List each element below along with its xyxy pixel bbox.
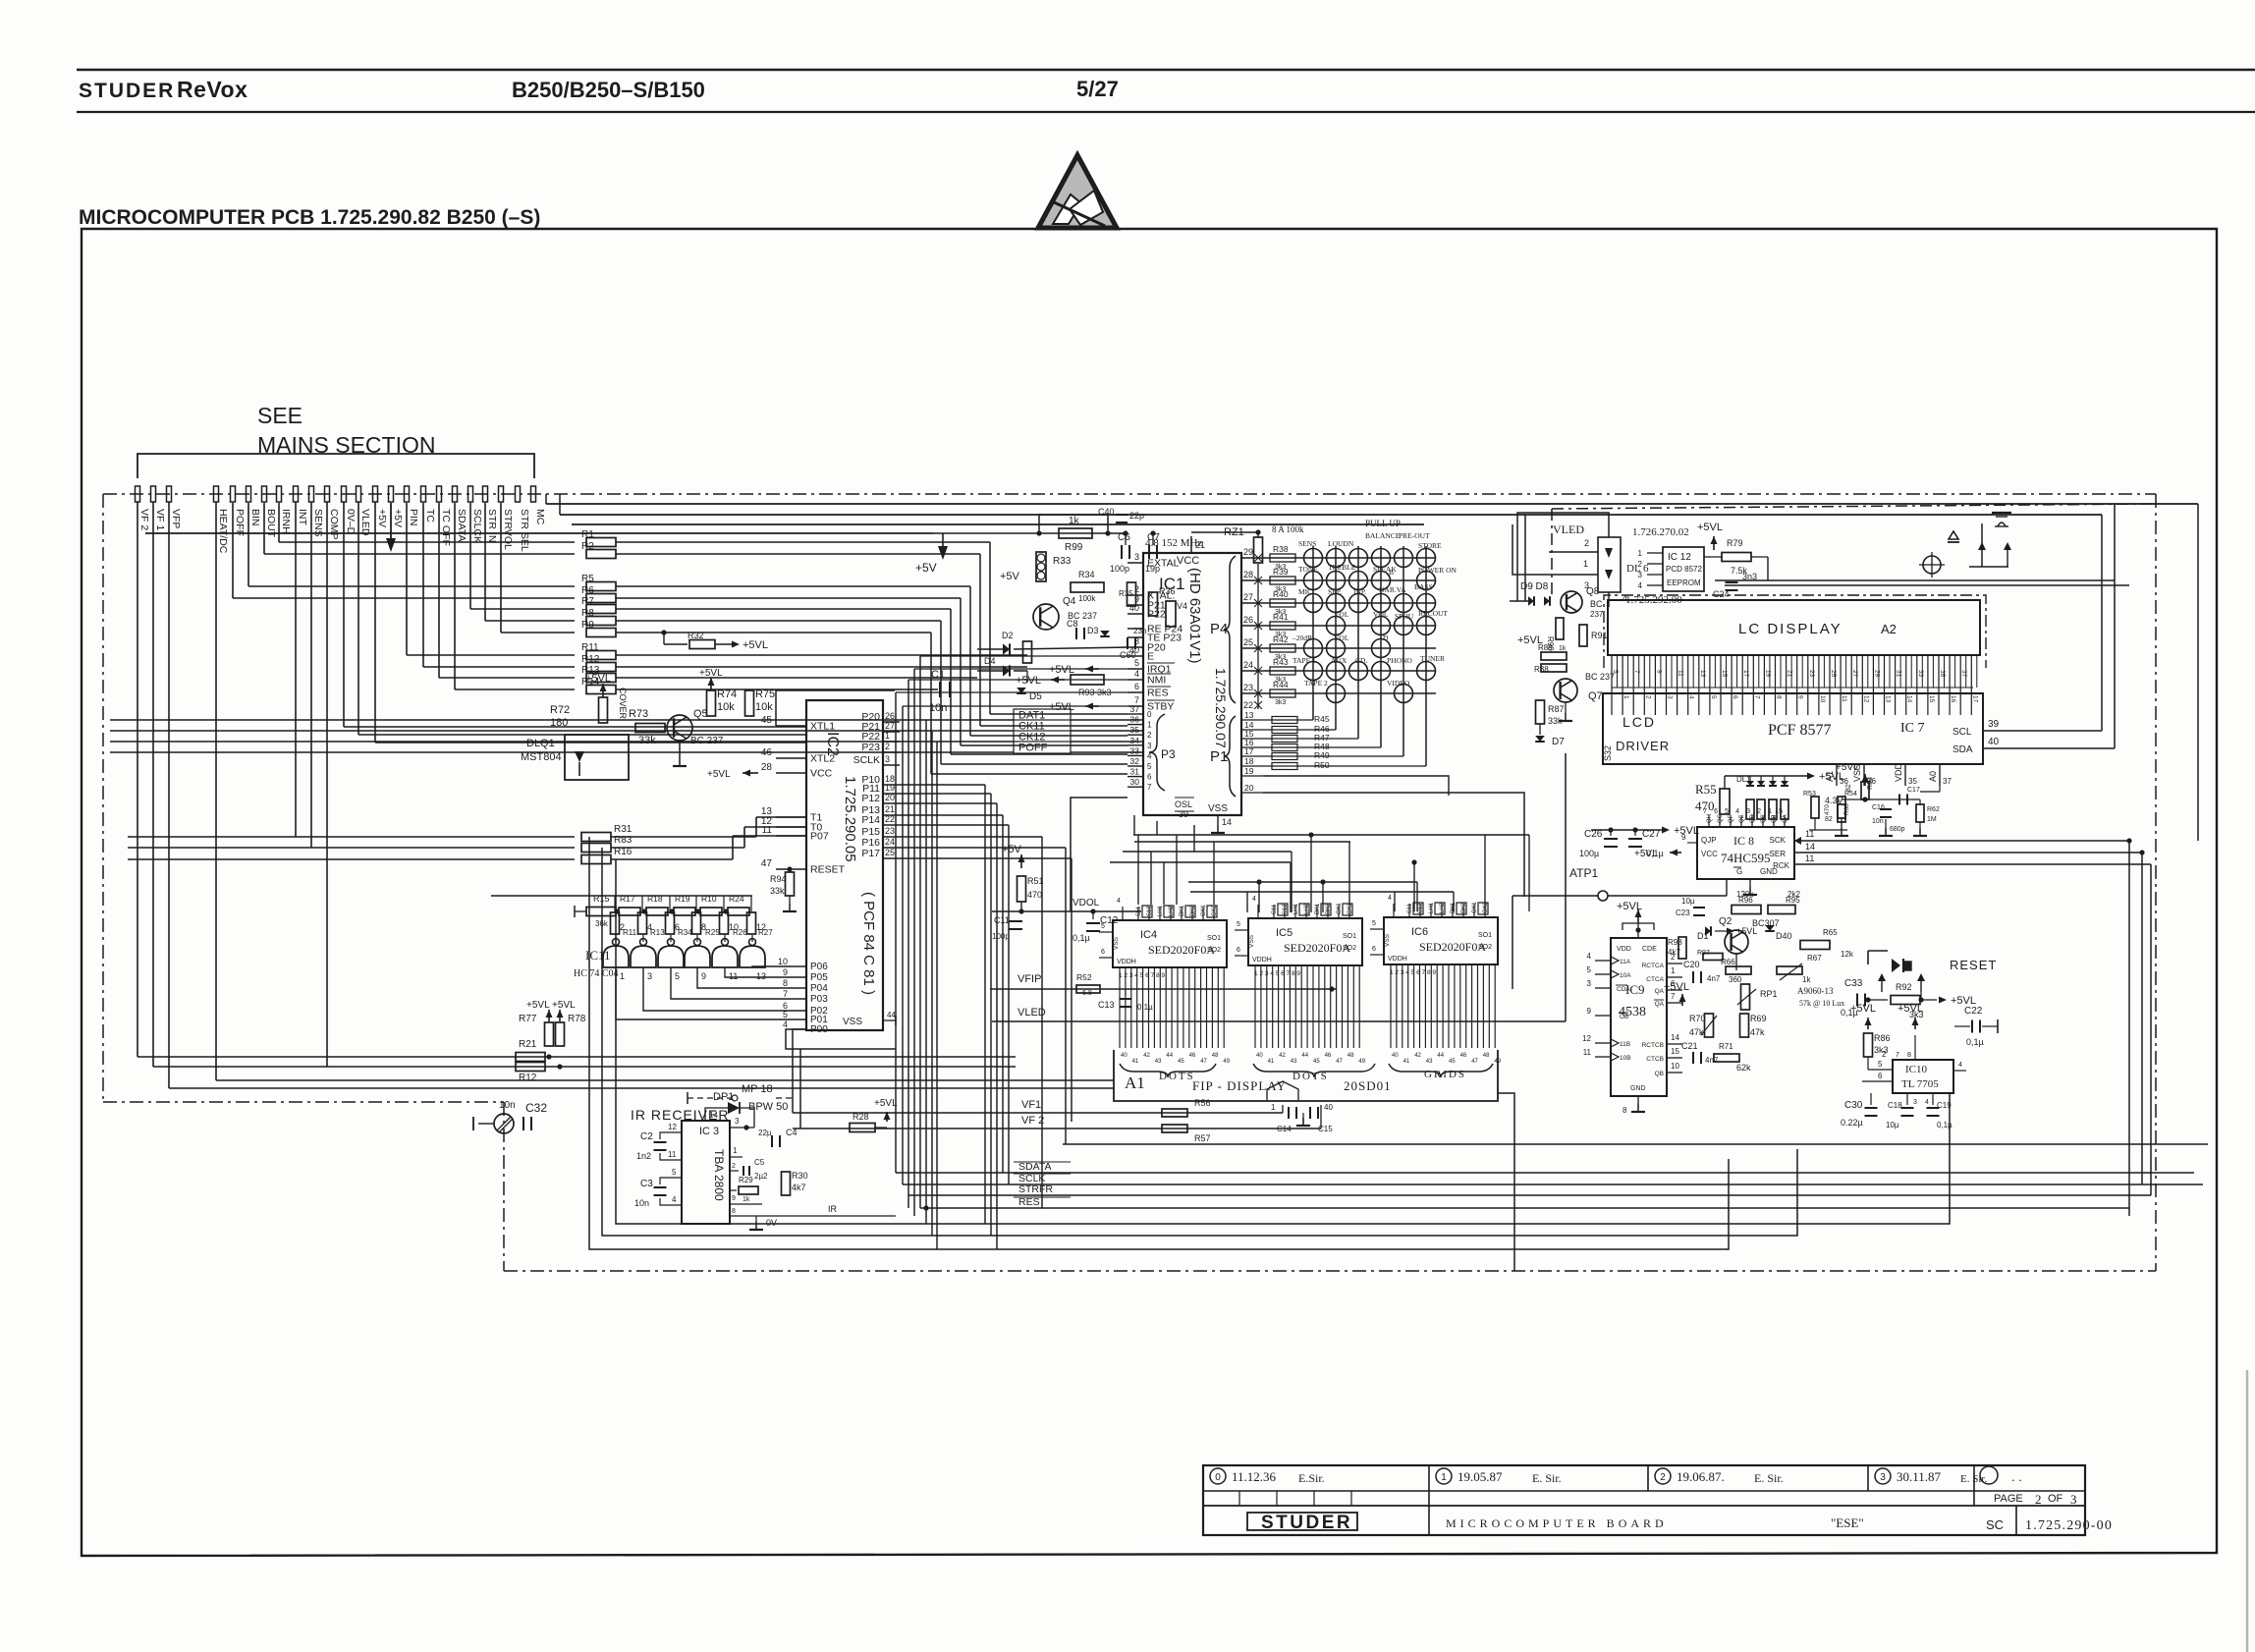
svg-text:TONE: TONE (1298, 565, 1318, 574)
svg-text:19: 19 (1764, 670, 1771, 678)
svg-text:SED2020F0A: SED2020F0A (1148, 943, 1215, 957)
dash-dot boundary left2 (503, 1102, 505, 1271)
svg-text:R75: R75 (755, 688, 775, 700)
dual monostable IC9 4538 (1582, 901, 1682, 1115)
svg-text:0,1µ: 0,1µ (1841, 1008, 1858, 1018)
input series resistors R1-R14 rows (233, 503, 1027, 694)
svg-text:2: 2 (1660, 1472, 1666, 1483)
svg-text:470: 470 (1824, 804, 1831, 815)
svg-text:24: 24 (885, 837, 895, 847)
svg-text:C21: C21 (1681, 1041, 1698, 1051)
svg-text:C60: C60 (1120, 650, 1136, 660)
svg-text:20: 20 (885, 793, 895, 802)
svg-text:GRIDS: GRIDS (1424, 1069, 1466, 1080)
svg-text:R12: R12 (519, 1073, 537, 1083)
svg-text:17: 17 (1244, 746, 1254, 756)
svg-text:RECOUT: RECOUT (1418, 609, 1448, 618)
svg-text:BK1: BK1 (1180, 905, 1185, 916)
svg-text:3: 3 (1913, 1099, 1917, 1106)
svg-text:40: 40 (1324, 1103, 1333, 1112)
svg-text:P00: P00 (810, 1024, 828, 1035)
svg-text:19: 19 (1244, 766, 1254, 776)
svg-text:CTCB: CTCB (1646, 1056, 1664, 1063)
svg-text:R94: R94 (770, 874, 787, 884)
svg-text:4: 4 (1117, 898, 1121, 905)
svg-text:R6: R6 (581, 585, 594, 596)
test point ATP1 (1512, 866, 1608, 901)
svg-text:40: 40 (1392, 1053, 1399, 1059)
svg-text:1: 1 (1638, 549, 1643, 558)
svg-text:E. Sir.: E. Sir. (1532, 1471, 1562, 1485)
IR receiver IC3 TBA2800 (631, 1083, 898, 1230)
svg-text:XTL1: XTL1 (810, 721, 835, 733)
svg-text:+5VL: +5VL (1836, 762, 1859, 773)
svg-text:Q8: Q8 (1586, 586, 1600, 597)
svg-text:470: 470 (1695, 798, 1715, 813)
svg-text:IC 12: IC 12 (1668, 552, 1691, 563)
svg-text:49: 49 (1358, 1059, 1365, 1065)
svg-text:Q5: Q5 (693, 708, 708, 720)
svg-text:120k: 120k (1736, 890, 1754, 899)
svg-text:6: 6 (1714, 808, 1718, 815)
svg-text:+5V: +5V (915, 561, 937, 575)
svg-text:PAGE: PAGE (1994, 1493, 2023, 1505)
svg-text:A0: A0 (1928, 771, 1938, 782)
reset connector symbol (1868, 951, 1997, 1003)
svg-text:STRVOL: STRVOL (502, 509, 514, 550)
svg-text:VF1: VF1 (1021, 1099, 1041, 1111)
svg-text:R31: R31 (614, 824, 632, 835)
dash-dot boundary jog (103, 1101, 504, 1103)
svg-text:BALANCE: BALANCE (1365, 531, 1401, 540)
P1 rows R45-R50 (1263, 714, 1524, 897)
FIP display A1 (1114, 1050, 1498, 1101)
svg-text:5/27: 5/27 (1076, 77, 1119, 101)
svg-text:SENS: SENS (1298, 539, 1316, 548)
svg-text:13: 13 (1244, 710, 1254, 720)
svg-text:14: 14 (1906, 695, 1913, 703)
svg-text:2k2: 2k2 (1787, 890, 1800, 899)
svg-text:7: 7 (1633, 670, 1640, 674)
svg-text:R24: R24 (729, 894, 744, 904)
svg-text:GND: GND (1760, 867, 1778, 876)
svg-text:8: 8 (1907, 1052, 1911, 1059)
svg-text:6: 6 (1878, 1072, 1883, 1080)
svg-text:45: 45 (761, 715, 773, 726)
svg-text:R45: R45 (1314, 714, 1330, 724)
svg-text:10n: 10n (634, 1198, 649, 1208)
svg-text:+5VL: +5VL (1617, 901, 1642, 912)
svg-text:8: 8 (732, 1208, 736, 1215)
svg-text:36: 36 (1130, 715, 1140, 725)
svg-text:41: 41 (1132, 1059, 1139, 1065)
VFIP row R52 C13 (990, 972, 1336, 1012)
svg-text:SCL: SCL (1952, 727, 1972, 738)
svg-text:3: 3 (1147, 742, 1152, 750)
svg-text:R55: R55 (1695, 782, 1717, 797)
svg-text:10A: 10A (1620, 972, 1631, 979)
svg-text:0,1µ: 0,1µ (1646, 849, 1664, 858)
svg-text:RESET: RESET (810, 864, 846, 876)
svg-text:A1: A1 (1125, 1074, 1145, 1092)
svg-text:46: 46 (761, 747, 773, 758)
VF1 VF2 rows (793, 1030, 1333, 1143)
svg-text:44: 44 (1437, 1053, 1444, 1059)
svg-text:MC: MC (534, 509, 546, 525)
svg-text:23n: 23n (1133, 627, 1146, 635)
svg-text:+5VL: +5VL (1049, 664, 1074, 676)
svg-text:C1: C1 (931, 669, 945, 681)
ESD warning triangle (1038, 155, 1117, 228)
VDOL supply R51 (992, 844, 1141, 943)
svg-text:Q2: Q2 (1719, 916, 1732, 927)
svg-text:D5: D5 (1029, 691, 1042, 702)
front panel key matrix (1241, 531, 1457, 766)
svg-text:R35: R35 (1119, 589, 1133, 598)
svg-text:CD.: CD. (1355, 656, 1367, 665)
svg-text:+5VL: +5VL (585, 673, 611, 685)
svg-text:HC 74 C04: HC 74 C04 (574, 968, 619, 979)
svg-text:C18: C18 (1888, 1101, 1902, 1110)
svg-text:4n7: 4n7 (1705, 1056, 1719, 1065)
svg-text:P22: P22 (1147, 609, 1166, 621)
svg-text:4: 4 (672, 1195, 677, 1204)
svg-text:33k: 33k (770, 886, 785, 896)
svg-text:41: 41 (1268, 1059, 1275, 1065)
svg-text:C13: C13 (1098, 1000, 1115, 1010)
svg-text:R49: R49 (1314, 750, 1330, 760)
display data staircase (1071, 798, 1529, 912)
svg-text:STUDER: STUDER (79, 80, 175, 102)
svg-text:40: 40 (1256, 1053, 1263, 1059)
svg-text:15: 15 (1928, 695, 1935, 703)
svg-text:IC 3: IC 3 (699, 1126, 719, 1137)
svg-text:R17: R17 (620, 894, 635, 904)
svg-text:R38: R38 (1273, 544, 1289, 554)
svg-text:TBA 2800: TBA 2800 (712, 1149, 726, 1201)
svg-text:R13: R13 (650, 928, 665, 937)
svg-text:11: 11 (1805, 854, 1814, 863)
svg-text:46: 46 (1189, 1053, 1196, 1059)
STUDER REVOX logo (79, 77, 247, 102)
svg-text:3k3: 3k3 (1909, 1010, 1924, 1019)
svg-text:22p: 22p (1129, 511, 1144, 521)
svg-text:"ESE": "ESE" (1831, 1515, 1864, 1530)
svg-text:R77: R77 (519, 1014, 537, 1024)
svg-text:37: 37 (1943, 777, 1952, 786)
svg-text:TAPE 1: TAPE 1 (1292, 656, 1316, 665)
svg-text:R42: R42 (1273, 634, 1289, 644)
svg-text:CDA: CDA (1617, 986, 1630, 993)
svg-text:22: 22 (885, 814, 895, 824)
top horizontal bus wires (145, 494, 2198, 841)
svg-text:–20dB: –20dB (1292, 633, 1312, 642)
svg-text:D3: D3 (1087, 626, 1099, 635)
svg-text:C16: C16 (1872, 804, 1885, 811)
svg-text:1.726.270.02: 1.726.270.02 (1632, 526, 1689, 538)
svg-text:R54: R54 (1844, 791, 1857, 798)
svg-text:6: 6 (1134, 682, 1139, 691)
svg-text:49: 49 (1223, 1059, 1230, 1065)
svg-text:62k: 62k (1736, 1063, 1751, 1073)
svg-text:R50: R50 (1314, 760, 1330, 770)
svg-text:360: 360 (1729, 975, 1742, 984)
svg-text:LH1: LH1 (1293, 903, 1299, 914)
svg-text:DLQ1: DLQ1 (526, 738, 555, 749)
svg-text:237: 237 (1590, 610, 1604, 619)
svg-text:B: B (1389, 568, 1394, 577)
svg-text:2: 2 (1147, 731, 1152, 740)
svg-text:BK1: BK1 (1315, 903, 1321, 914)
svg-text:12: 12 (668, 1123, 677, 1131)
svg-text:47k: 47k (1689, 1027, 1704, 1037)
svg-text:B250/B250–S/B150: B250/B250–S/B150 (512, 78, 705, 102)
svg-text:COVER: COVER (618, 688, 628, 720)
svg-text:40: 40 (1121, 1053, 1127, 1059)
svg-text:20: 20 (1244, 783, 1254, 793)
svg-text:46: 46 (1460, 1053, 1467, 1059)
svg-text:0,1µ: 0,1µ (1072, 933, 1090, 943)
svg-text:2: 2 (1638, 560, 1643, 569)
svg-text:R63: R63 (1867, 777, 1874, 790)
svg-text:VLED: VLED (1553, 523, 1584, 536)
svg-text:C4: C4 (786, 1128, 797, 1137)
svg-text:0,1µ: 0,1µ (1966, 1037, 1984, 1047)
svg-text:C15: C15 (1318, 1125, 1333, 1133)
svg-text:R57: R57 (1194, 1133, 1211, 1143)
svg-text:25: 25 (885, 848, 895, 857)
svg-text:1: 1 (1271, 1103, 1276, 1112)
svg-text:R32: R32 (687, 631, 704, 640)
svg-text:A9060-13: A9060-13 (1797, 986, 1834, 996)
svg-text:POFF: POFF (234, 509, 246, 536)
svg-text:10n: 10n (499, 1100, 516, 1111)
svg-text:44: 44 (887, 1011, 896, 1019)
IC1 P4 pins (1210, 556, 1236, 703)
svg-text:D: D (1383, 633, 1389, 642)
svg-text:OF: OF (2048, 1493, 2063, 1505)
svg-text:8: 8 (783, 978, 788, 988)
header page number (1076, 77, 1119, 101)
hex inverter IC11 (491, 894, 792, 1019)
svg-text:34: 34 (1130, 736, 1140, 745)
svg-text:R53: R53 (1803, 791, 1816, 798)
svg-text:RP1: RP1 (1760, 989, 1778, 999)
svg-text:IC10: IC10 (1905, 1064, 1928, 1075)
svg-text:9: 9 (1655, 670, 1662, 674)
svg-text:VOL: VOL (1334, 610, 1349, 619)
svg-text:6: 6 (1732, 695, 1738, 699)
svg-text:R5: R5 (581, 574, 594, 584)
svg-text:R89: R89 (1538, 643, 1553, 652)
svg-text:V4: V4 (1177, 601, 1187, 611)
svg-text:48: 48 (1483, 1053, 1490, 1059)
svg-text:+5VL: +5VL (699, 668, 723, 679)
svg-text:10: 10 (1819, 695, 1826, 703)
svg-text:3: 3 (2070, 1492, 2077, 1507)
RZ1 pull-up pack (1191, 519, 1401, 563)
LC display A2 and LCD driver IC7 (1552, 504, 2151, 786)
svg-text:48: 48 (1347, 1053, 1354, 1059)
svg-text:D2: D2 (1002, 631, 1014, 640)
reset diodes D2 D4 D5 (929, 631, 1127, 714)
staircase wires into IC2 top (344, 727, 806, 743)
SDATA SCLK STRFR RES bus (896, 1161, 2203, 1211)
svg-text:C8: C8 (1067, 619, 1078, 629)
svg-text:QF: QF (1729, 814, 1734, 823)
svg-text:10k: 10k (717, 701, 735, 713)
svg-text:11: 11 (729, 971, 738, 981)
svg-text:29: 29 (1243, 547, 1253, 557)
svg-text:R73: R73 (629, 708, 648, 720)
svg-text:SO2: SO2 (1343, 945, 1356, 952)
svg-text:R70: R70 (1689, 1014, 1706, 1023)
svg-text:9: 9 (1587, 1007, 1592, 1016)
svg-text:+5V: +5V (1000, 571, 1020, 582)
misc pin verticals (296, 502, 375, 1067)
svg-text:32: 32 (1130, 756, 1140, 766)
svg-text:VOL: VOL (1373, 610, 1389, 619)
svg-text:14: 14 (1805, 842, 1815, 852)
right joins (2155, 731, 2194, 1173)
svg-text:7: 7 (1896, 1052, 1899, 1059)
svg-text:C33: C33 (1844, 978, 1863, 989)
svg-text:3: 3 (735, 1117, 740, 1126)
svg-text:VSS: VSS (843, 1017, 862, 1027)
monostable timing parts (1664, 937, 1767, 1073)
svg-text:5: 5 (1612, 670, 1619, 674)
svg-text:C14: C14 (1277, 1125, 1292, 1133)
svg-text:1 2 3 4 5 6 7 8 9: 1 2 3 4 5 6 7 8 9 (1119, 972, 1165, 979)
svg-text:R25: R25 (705, 928, 720, 937)
svg-text:SEP.: SEP. (1328, 587, 1342, 596)
svg-text:P07: P07 (810, 831, 829, 843)
dash-dot boundary top (103, 493, 2156, 495)
svg-text:R87: R87 (1548, 704, 1565, 714)
svg-text:VDD: VDD (1617, 946, 1631, 953)
C32 input filter (473, 1100, 547, 1133)
header top rule (77, 69, 2255, 72)
display driver IC4 SED2020 (1099, 898, 1231, 1065)
svg-text:20SD01: 20SD01 (1344, 1078, 1392, 1093)
svg-text:R92: R92 (1896, 982, 1912, 992)
svg-text:22µ: 22µ (758, 1129, 772, 1137)
svg-text:+5VL +5VL: +5VL +5VL (526, 1000, 576, 1011)
svg-text:15: 15 (1721, 670, 1728, 678)
svg-text:RCTCB: RCTCB (1642, 1042, 1664, 1049)
XTL loop wire (776, 690, 895, 726)
svg-text:IC 7: IC 7 (1900, 721, 1925, 736)
svg-text:1M: 1M (1927, 816, 1937, 823)
svg-text:2: 2 (732, 1163, 736, 1170)
svg-text:4: 4 (1688, 695, 1695, 699)
svg-text:IR: IR (828, 1204, 838, 1214)
svg-text:MICROCOMPUTER PCB 1.725.290.: MICROCOMPUTER PCB 1.725.290.82 B250 (–S) (79, 206, 540, 229)
svg-text:VOL: VOL (1334, 633, 1349, 642)
svg-text:29: 29 (1873, 670, 1880, 678)
svg-text:ReVox: ReVox (177, 77, 247, 102)
svg-text:10µ: 10µ (1681, 897, 1695, 906)
svg-text:5: 5 (1372, 920, 1376, 927)
svg-text:+5V: +5V (392, 509, 404, 527)
HEAT/DC vertical (215, 502, 217, 1080)
svg-text:41: 41 (1403, 1059, 1410, 1065)
svg-text:25: 25 (1830, 670, 1837, 678)
svg-text:7: 7 (1147, 783, 1152, 792)
svg-text:SO1: SO1 (1207, 935, 1221, 942)
svg-text:VSS: VSS (1384, 933, 1391, 947)
svg-text:1k: 1k (1802, 975, 1811, 984)
svg-text:5: 5 (1237, 921, 1240, 928)
svg-text:P06: P06 (810, 962, 828, 972)
svg-text:R18: R18 (647, 894, 663, 904)
svg-text:C24: C24 (1713, 589, 1730, 599)
svg-text:R60: R60 (1843, 803, 1850, 815)
svg-text:ATP1: ATP1 (1569, 866, 1598, 880)
svg-text:35: 35 (1939, 670, 1946, 678)
svg-text:TC OFF: TC OFF (440, 509, 452, 546)
mains bracket (137, 454, 534, 478)
svg-text:SDATA: SDATA (1018, 1161, 1051, 1173)
svg-text:33: 33 (1917, 670, 1924, 678)
svg-text:42: 42 (1414, 1053, 1421, 1059)
svg-text:STR IN: STR IN (486, 509, 498, 542)
svg-text:19.05.87: 19.05.87 (1457, 1469, 1503, 1484)
svg-text:11: 11 (668, 1150, 677, 1159)
svg-text:CDE: CDE (1642, 946, 1657, 953)
svg-text:D7: D7 (1552, 737, 1565, 747)
svg-text:SO2: SO2 (1207, 947, 1221, 954)
svg-text:R51: R51 (1027, 876, 1044, 886)
pullups R77 R78 R21 R12 (516, 1000, 586, 1083)
svg-text:COMP: COMP (328, 509, 340, 540)
svg-text:40: 40 (1988, 737, 2000, 747)
svg-text:+5VL: +5VL (1736, 926, 1757, 936)
dash-dot boundary right (2155, 494, 2157, 1271)
svg-text:RES: RES (1018, 1196, 1040, 1208)
svg-text:0V–D: 0V–D (345, 509, 357, 535)
svg-text:4k7: 4k7 (1668, 948, 1680, 957)
svg-text:R74: R74 (717, 688, 737, 700)
svg-text:C23: C23 (1676, 909, 1690, 917)
svg-text:4: 4 (1925, 1099, 1929, 1106)
svg-text:45: 45 (1178, 1059, 1184, 1065)
svg-text:4: 4 (1587, 952, 1592, 961)
svg-text:+5VL: +5VL (1674, 825, 1699, 837)
svg-text:R36: R36 (1159, 586, 1176, 596)
svg-text:10n: 10n (1872, 818, 1884, 825)
svg-text:NAR.VA: NAR.VA (1379, 585, 1406, 594)
svg-text:1: 1 (1583, 559, 1588, 569)
svg-text:R56: R56 (1194, 1098, 1211, 1108)
svg-text:Q7: Q7 (1588, 690, 1603, 702)
svg-text:3k3: 3k3 (1275, 699, 1286, 706)
oscillator Q4 cluster (915, 507, 1187, 660)
svg-text:R83: R83 (614, 835, 632, 846)
svg-text:( PCF 84 C 81 ): ( PCF 84 C 81 ) (860, 892, 877, 995)
svg-text:R91: R91 (1591, 631, 1608, 640)
IC2 port wires down (900, 785, 1072, 1249)
VF2 VF1 VFP long verticals (137, 502, 169, 1088)
svg-text:R2: R2 (581, 541, 594, 552)
svg-text:VDDH: VDDH (1117, 959, 1136, 965)
svg-text:+5V: +5V (1002, 844, 1022, 855)
svg-text:R12: R12 (581, 654, 600, 665)
svg-text:6.8: 6.8 (1082, 990, 1092, 997)
svg-text:MP 18: MP 18 (742, 1083, 773, 1095)
svg-text:PCD 8572: PCD 8572 (1666, 565, 1702, 574)
svg-text:2: 2 (1584, 538, 1589, 548)
